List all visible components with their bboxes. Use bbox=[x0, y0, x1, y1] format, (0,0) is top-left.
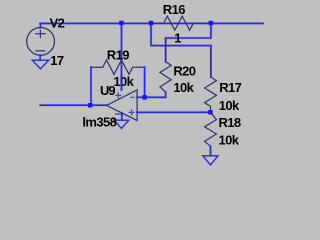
svg-text:10k: 10k bbox=[219, 98, 240, 113]
svg-text:R16: R16 bbox=[163, 2, 185, 17]
svg-text:10k: 10k bbox=[173, 80, 194, 95]
svg-text:R18: R18 bbox=[219, 115, 241, 130]
svg-text:V2: V2 bbox=[50, 15, 65, 30]
svg-text:R20: R20 bbox=[173, 63, 195, 78]
svg-text:1: 1 bbox=[174, 30, 181, 45]
svg-text:R19: R19 bbox=[107, 47, 129, 62]
svg-text:17: 17 bbox=[50, 53, 64, 68]
svg-text:U9: U9 bbox=[100, 83, 115, 98]
svg-text:R17: R17 bbox=[219, 80, 241, 95]
svg-text:10k: 10k bbox=[219, 133, 240, 148]
svg-text:lm358: lm358 bbox=[82, 114, 116, 129]
svg-text:10k: 10k bbox=[113, 74, 134, 89]
